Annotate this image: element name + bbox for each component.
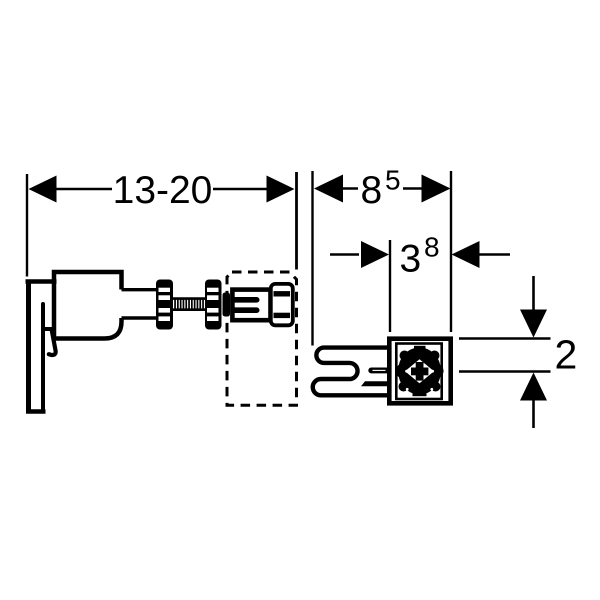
dimension 13-20 extension line left xyxy=(26,174,28,277)
dimension 2 leader line top xyxy=(459,337,551,339)
threaded rod xyxy=(172,299,206,310)
clip tab upper xyxy=(368,368,390,374)
dimension 2 leader line bottom xyxy=(459,370,551,372)
rod neck top line xyxy=(122,288,159,291)
clip tab lower xyxy=(361,381,390,386)
bracket hook xyxy=(49,331,56,356)
dimension 8.5 extension line left xyxy=(311,171,313,346)
connector body xyxy=(232,290,270,321)
square fixture inner frame xyxy=(396,344,441,400)
dimension 3.8 tail left xyxy=(330,253,359,256)
dimension 3.8 extension line left xyxy=(389,240,391,332)
nut N2 xyxy=(205,280,222,330)
svg-text:3: 3 xyxy=(400,238,422,281)
gear knob xyxy=(395,346,444,396)
wall plate top edge xyxy=(26,279,57,284)
dashed box xyxy=(227,272,297,405)
dimension 8.5 line left segment xyxy=(341,187,358,190)
dimension 13-20 arrow right xyxy=(267,176,295,203)
gear centre window xyxy=(405,359,434,383)
bracket hook top line xyxy=(43,327,54,331)
dimension 8.5 line right segment xyxy=(403,187,422,190)
dimension 2 tail bottom xyxy=(532,400,535,428)
wall plate left edge xyxy=(26,280,31,414)
dimension 3.8 tail right xyxy=(479,253,510,256)
svg-text:2: 2 xyxy=(555,332,578,378)
connector inner bar bottom xyxy=(233,307,257,313)
dimension 2 arrow up xyxy=(520,373,547,401)
svg-text:8: 8 xyxy=(424,232,440,263)
dimension 8.5 arrow left xyxy=(314,175,343,203)
wall plate bottom edge xyxy=(26,409,46,414)
spring clip serpentine xyxy=(313,348,390,396)
dimension 3.8 arrow right (pointing left) xyxy=(452,241,480,268)
dimension 2 arrow down xyxy=(520,310,547,338)
connector inner bar top xyxy=(233,297,257,303)
svg-text:5: 5 xyxy=(385,165,401,196)
end cap xyxy=(271,284,293,325)
nut N1 xyxy=(156,280,173,330)
svg-text:8: 8 xyxy=(361,169,383,212)
dimension 8.5 arrow right xyxy=(422,175,451,203)
washer xyxy=(223,293,231,317)
dimension 13-20 line left segment xyxy=(56,188,112,191)
wall plate inner edge xyxy=(41,304,45,411)
dimension 8.5/3.8 extension line right xyxy=(450,171,452,332)
dimension 3.8 arrow left (pointing right) xyxy=(361,241,389,268)
rod neck bottom line xyxy=(122,316,159,319)
svg-text:13-20: 13-20 xyxy=(113,169,213,212)
dimension 13-20 extension line right xyxy=(295,172,298,270)
dimension 13-20 line right segment xyxy=(213,188,267,191)
square fixture outer frame xyxy=(389,339,450,404)
gear centre cross xyxy=(416,362,424,381)
dimension 13-20 arrow left xyxy=(29,176,57,203)
dimension 2 tail top xyxy=(532,276,535,310)
bracket body xyxy=(52,272,122,341)
